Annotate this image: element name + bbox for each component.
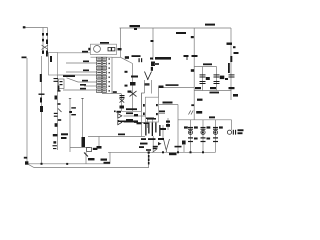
tick on osc feed	[151, 40, 154, 42]
crystal box	[90, 44, 116, 54]
pin line to bus	[152, 136, 154, 152]
wire buffer vertical	[158, 88, 160, 98]
v1 junction	[25, 161, 28, 164]
labels above tank	[184, 55, 189, 57]
tank branch 2	[202, 67, 204, 91]
label tune bus	[126, 108, 137, 110]
mid bus	[88, 136, 145, 138]
box VCO module	[49, 53, 58, 76]
crystal Y1 blob	[125, 56, 129, 59]
x57 column parts	[54, 78, 59, 79]
osc Q labels	[150, 58, 153, 60]
ladder right rail	[111, 57, 113, 93]
wire ladder row C	[66, 71, 97, 73]
label 4.7k	[153, 146, 158, 148]
wire left branch vertical 1	[42, 28, 44, 54]
inverter 2	[118, 120, 122, 125]
supply drop	[193, 91, 195, 120]
inverter wire 2	[124, 122, 146, 124]
tank top bus	[194, 66, 216, 68]
ic pin ticks	[146, 118, 154, 120]
fet labels	[71, 107, 76, 108]
pin label streaks	[145, 123, 146, 136]
top right label	[205, 24, 215, 26]
tank branch3 bars	[214, 74, 220, 75]
arrow blob under stub	[97, 146, 102, 149]
wire to tank	[163, 87, 194, 89]
wire q leg to tune bus	[142, 93, 145, 111]
emitter wire	[70, 147, 90, 149]
right vert labels	[227, 43, 233, 45]
tune bus	[122, 110, 142, 112]
vco vertical label	[50, 56, 52, 62]
text inside box bottom	[147, 118, 156, 120]
transistor2 drop	[85, 152, 87, 164]
inverter wire 1	[124, 115, 146, 117]
bus B corner up	[148, 152, 150, 168]
bot transistor labels	[141, 138, 146, 140]
branch 1	[190, 120, 192, 153]
wire Q-base vertical	[141, 93, 143, 111]
text near varactor A bottom	[128, 91, 132, 93]
tank bottom bus	[194, 90, 231, 92]
resistor dark body	[148, 155, 150, 158]
wire right vertical drop	[230, 28, 232, 100]
resistor ladder cells	[97, 57, 110, 92]
inverter 1	[118, 114, 122, 119]
branch 4	[231, 120, 233, 130]
label 4.7uH	[166, 84, 179, 86]
wire long vertical V1	[26, 58, 28, 164]
v2 line labels	[39, 94, 45, 95]
stub x187	[186, 57, 189, 60]
small drop x184	[183, 145, 185, 152]
varactor column B	[121, 94, 123, 112]
resistor drop r	[177, 105, 179, 153]
arrow to tank	[159, 86, 164, 89]
ladder labels left column	[82, 51, 88, 53]
branch bottom ticks	[188, 137, 193, 138]
jfet gate mark	[191, 69, 194, 72]
x178 tick	[175, 146, 182, 148]
tank right branch bars	[229, 74, 235, 75]
crystal internals	[108, 48, 111, 51]
dark comp x83	[82, 137, 86, 147]
x168 blobs	[166, 121, 170, 123]
wire ladder row A	[58, 52, 91, 54]
label r drop	[163, 102, 173, 104]
bottom bus A	[27, 163, 110, 165]
bus junction dots	[162, 151, 164, 153]
crystal label above box	[100, 42, 109, 44]
branch top ticks row2	[188, 141, 193, 142]
wire ladder row B	[66, 62, 97, 64]
lower bus main	[108, 151, 216, 153]
ticks right of ladder	[125, 71, 128, 73]
junction dot v2	[41, 163, 43, 165]
circles row	[188, 130, 192, 134]
transistor V legs	[145, 72, 152, 81]
jfet label top	[176, 32, 186, 34]
branch3 cap	[213, 127, 218, 128]
diode X left	[42, 45, 49, 50]
branch1 cap	[184, 126, 188, 128]
supply bus label	[209, 116, 215, 118]
wire ladder row F	[84, 85, 96, 87]
cap bars base	[139, 58, 140, 62]
pin blob top-left	[23, 26, 26, 28]
wire top-left horizontal	[25, 27, 48, 29]
label near left branch	[42, 33, 44, 36]
wire diagonal varactor feed	[121, 57, 133, 63]
pin numbers inside box	[156, 104, 158, 106]
tick x163	[160, 128, 166, 130]
IC box U2	[145, 97, 158, 122]
branch 3	[215, 120, 217, 153]
pin numbers left of box	[143, 104, 145, 107]
osc transistor feed	[152, 28, 154, 60]
pin text row under bus	[118, 121, 134, 123]
wire q base down	[141, 111, 143, 136]
transistor legs	[144, 80, 146, 93]
wire r top	[159, 104, 179, 106]
v2 vertical label	[40, 74, 42, 82]
label dbc	[104, 162, 111, 164]
branch 2	[202, 120, 204, 153]
text near x66	[61, 133, 68, 135]
wire rail top stub	[112, 56, 121, 58]
diag to bus B	[28, 164, 34, 167]
top transistor label	[130, 25, 141, 27]
wire x57 column	[57, 75, 59, 150]
component left of box	[88, 48, 90, 51]
supply bus	[178, 119, 232, 121]
v1 bottom tick	[24, 157, 27, 159]
pin 3	[162, 125, 164, 139]
wire diagonal to row E	[67, 78, 79, 82]
transistor V to bus	[164, 139, 170, 152]
label 4.5MHz diag	[132, 55, 141, 57]
wire stub	[159, 113, 166, 115]
label 16 under ladder	[113, 91, 117, 93]
bottom bus B	[34, 167, 149, 169]
tank branch2 bars	[200, 74, 206, 75]
supply branch labels	[197, 99, 203, 101]
label 470	[101, 159, 108, 161]
wire ladder row E	[78, 81, 96, 83]
wire left branch vertical 2	[47, 28, 49, 53]
pin arrow V1	[22, 57, 27, 59]
pin 4	[167, 118, 169, 130]
osc circle	[94, 46, 101, 53]
ladder top wire	[91, 56, 113, 58]
wire top bus	[120, 27, 232, 29]
pin 2	[152, 118, 154, 128]
bottom bus A corner	[109, 152, 111, 164]
pin 1	[147, 118, 149, 128]
box top feed	[120, 28, 122, 57]
jfet vertical	[193, 28, 195, 91]
wire ladder row G	[63, 89, 96, 91]
wire ladder bottom	[102, 93, 121, 95]
branch2 cap	[201, 127, 206, 128]
varactor column A	[132, 64, 134, 112]
wire ladder row D	[58, 74, 97, 76]
inverter wire labels	[126, 112, 133, 114]
tank top label	[203, 63, 212, 65]
varactor B details	[120, 95, 125, 96]
wire long vertical V2	[41, 56, 43, 164]
varactor A details	[131, 76, 138, 78]
stub with arrow	[98, 137, 100, 147]
transistor2	[87, 148, 92, 152]
label box 4x1N4148	[63, 75, 75, 77]
fet lines	[69, 98, 71, 152]
mid bus label	[118, 134, 125, 136]
branch4 symbol	[227, 130, 231, 134]
tank branch 3	[216, 67, 218, 91]
tank bus label	[210, 92, 220, 94]
